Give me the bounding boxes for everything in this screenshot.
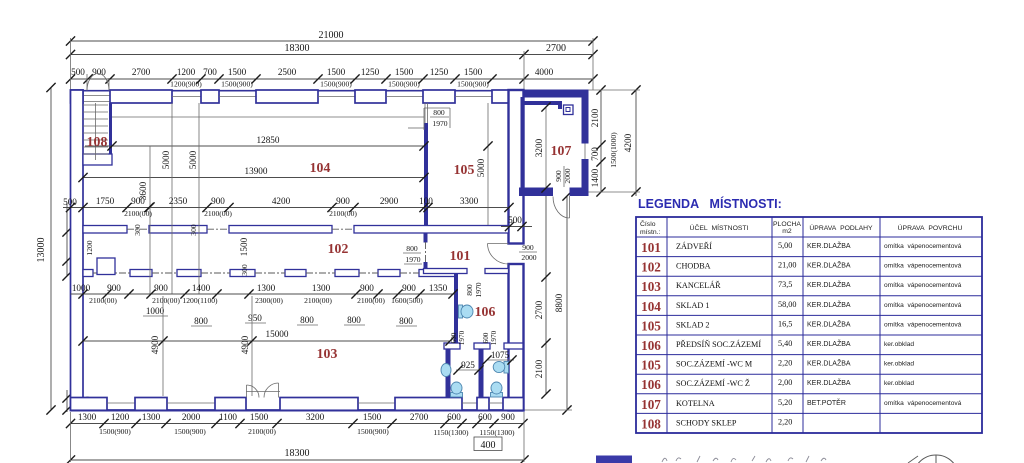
svg-text:2100(00): 2100(00)	[204, 209, 232, 218]
sub labels 1000 800 950 row	[143, 306, 417, 326]
svg-text:2350: 2350	[169, 196, 188, 206]
wall niche left corridor	[97, 258, 115, 275]
svg-text:500: 500	[63, 197, 77, 207]
exterior top wall outer line	[71, 90, 589, 92]
svg-text:1970: 1970	[458, 330, 466, 345]
bottom wall pier f	[477, 398, 489, 411]
room label 101	[450, 248, 471, 263]
svg-text:800: 800	[347, 315, 361, 325]
annex window east	[584, 144, 586, 160]
svg-text:2100(00): 2100(00)	[329, 209, 357, 218]
svg-text:2900: 2900	[380, 196, 399, 206]
svg-text:3300: 3300	[460, 196, 479, 206]
bottom window b	[167, 402, 215, 404]
svg-text:2100: 2100	[590, 108, 600, 127]
svg-text:ÚPRAVA POVRCHU: ÚPRAVA POVRCHU	[898, 223, 963, 232]
annex bottom wall right part	[570, 188, 589, 197]
room label 105	[454, 162, 475, 177]
door label 900/2000 at 107	[554, 166, 572, 187]
annex dim 4200	[589, 85, 641, 196]
svg-text:4000: 4000	[535, 67, 554, 77]
svg-text:103: 103	[641, 279, 661, 294]
svg-text:1500(900): 1500(900)	[357, 427, 389, 436]
svg-text:2700: 2700	[410, 412, 429, 422]
svg-text:15000: 15000	[266, 329, 289, 339]
dim chain bottom detail	[66, 412, 528, 437]
door arc entry 101	[488, 244, 509, 265]
svg-text:1970: 1970	[432, 119, 447, 128]
svg-text:KANCELÁŘ: KANCELÁŘ	[676, 280, 721, 290]
stair treads 108	[83, 103, 108, 160]
svg-text:omítka vápenocementová: omítka vápenocementová	[884, 263, 962, 270]
bottom window e	[489, 402, 503, 404]
stair right wall	[109, 103, 112, 155]
svg-text:PLOCHA: PLOCHA	[773, 221, 801, 228]
svg-text:omítka vápenocementová: omítka vápenocementová	[884, 282, 962, 289]
svg-text:1400: 1400	[590, 168, 600, 187]
svg-text:SOC.ZÁZEMÍ -WC Ž: SOC.ZÁZEMÍ -WC Ž	[676, 378, 750, 388]
svg-text:108: 108	[641, 416, 661, 431]
svg-text:800: 800	[399, 316, 413, 326]
svg-text:100: 100	[419, 196, 433, 206]
svg-text:105: 105	[454, 162, 475, 177]
svg-text:SKLAD 1: SKLAD 1	[676, 301, 709, 310]
dim left chain 1200/600/500	[62, 203, 94, 415]
wall 300 labels	[133, 224, 249, 276]
svg-text:CHODBA: CHODBA	[676, 262, 711, 271]
svg-text:600: 600	[450, 332, 458, 343]
svg-text:1500(1000): 1500(1000)	[609, 132, 618, 168]
dim row y203 along corridor top	[63, 196, 514, 218]
dim line 18300 bottom	[66, 412, 529, 463]
dim chain top detail	[66, 38, 598, 90]
svg-text:800: 800	[465, 284, 474, 296]
room 106 left wall	[454, 274, 458, 344]
top wall corner pier left	[71, 90, 84, 103]
svg-text:Číslo: Číslo	[640, 219, 656, 228]
divider wall 104/105	[424, 123, 428, 226]
svg-text:1970: 1970	[474, 282, 483, 297]
right exterior wall lower	[509, 264, 524, 411]
svg-text:800: 800	[433, 108, 445, 117]
door label 900/2000 entry 101	[519, 243, 537, 262]
bottom wall pier g	[503, 398, 524, 411]
annex right dim chain 2100/700/1400	[590, 85, 618, 196]
wc door labels 600/1970	[450, 330, 498, 345]
svg-text:58,00: 58,00	[778, 300, 796, 309]
svg-text:2700: 2700	[132, 67, 151, 77]
extension line 5000 a	[161, 103, 172, 294]
svg-text:1750: 1750	[96, 196, 115, 206]
svg-text:ZÁDVEŘÍ: ZÁDVEŘÍ	[676, 241, 712, 251]
toilet wc left	[451, 382, 463, 397]
corridor 102 top wall door openings dash	[127, 228, 354, 230]
svg-text:SCHODY SKLEP: SCHODY SKLEP	[676, 418, 737, 427]
svg-text:5000: 5000	[161, 150, 171, 169]
dim 8800 right	[554, 191, 572, 414]
basin room 106	[459, 305, 474, 318]
bottom wall pier c	[215, 398, 246, 411]
svg-text:73,5: 73,5	[778, 280, 792, 289]
svg-text:KOTELNA: KOTELNA	[676, 399, 715, 408]
svg-text:2,20: 2,20	[778, 417, 792, 426]
svg-text:900: 900	[131, 196, 145, 206]
annex top wall solid	[508, 90, 589, 98]
svg-text:900: 900	[336, 196, 350, 206]
top wall pier 2500	[256, 90, 318, 103]
svg-text:LEGENDA MÍSTNOSTI:: LEGENDA MÍSTNOSTI:	[638, 196, 782, 211]
dim line 21000	[66, 30, 598, 46]
svg-text:BET.POTĚR: BET.POTĚR	[807, 398, 846, 407]
top wall pier 1250 b	[423, 90, 455, 103]
svg-text:KER.DLAŽBA: KER.DLAŽBA	[807, 319, 851, 328]
svg-text:3200: 3200	[306, 412, 325, 422]
dim 400 box	[474, 437, 502, 451]
svg-text:500: 500	[508, 215, 522, 225]
svg-text:106: 106	[641, 338, 661, 353]
svg-text:3200: 3200	[534, 138, 544, 157]
svg-text:1200: 1200	[177, 67, 196, 77]
svg-text:18300: 18300	[285, 43, 310, 54]
legend table frame	[636, 217, 982, 433]
svg-text:1500: 1500	[250, 412, 269, 422]
corridor 102 bottom wall piers	[83, 270, 457, 277]
svg-text:1300: 1300	[312, 283, 331, 293]
legend purpose column	[676, 241, 761, 427]
svg-text:106: 106	[641, 377, 661, 392]
left exterior wall	[71, 90, 84, 411]
door arc stair entrance top	[87, 74, 109, 91]
svg-text:1350: 1350	[429, 283, 448, 293]
room 101 bottom wall right part	[485, 269, 509, 274]
svg-text:SOC.ZÁZEMÍ -WC M: SOC.ZÁZEMÍ -WC M	[676, 359, 753, 369]
svg-text:1000: 1000	[72, 283, 91, 293]
svg-text:105: 105	[641, 318, 661, 333]
svg-text:KER.DLAŽBA: KER.DLAŽBA	[807, 378, 851, 387]
legend surface column	[884, 243, 962, 407]
door dash 101 left	[425, 242, 427, 262]
svg-text:KER.DLAŽBA: KER.DLAŽBA	[807, 280, 851, 289]
top wall pier 2700	[110, 90, 172, 103]
boiler room 107 inner wall horizontal	[521, 101, 563, 109]
room label 103	[317, 346, 338, 361]
svg-text:5,00: 5,00	[778, 241, 792, 250]
wc divider wall	[479, 349, 484, 398]
svg-text:1300: 1300	[257, 283, 276, 293]
extension line 3600	[138, 146, 155, 294]
legend area column	[778, 241, 796, 426]
svg-text:1000: 1000	[146, 306, 165, 316]
legend title	[638, 196, 782, 211]
svg-text:1300: 1300	[142, 412, 161, 422]
bottom window a	[107, 402, 135, 404]
door gap lines divider 104/105	[425, 103, 428, 123]
svg-text:KER.DLAŽBA: KER.DLAŽBA	[807, 300, 851, 309]
svg-text:1150(1300): 1150(1300)	[433, 428, 469, 437]
svg-text:1600(500): 1600(500)	[391, 296, 423, 305]
dim left 13000	[36, 83, 56, 415]
legend swatch blue bottom	[596, 456, 632, 463]
svg-text:KER.DLAŽBA: KER.DLAŽBA	[807, 359, 851, 368]
svg-text:1200: 1200	[85, 240, 94, 255]
svg-text:300: 300	[133, 224, 142, 236]
svg-text:106: 106	[475, 304, 496, 319]
dim 12850 room 104	[85, 135, 429, 151]
svg-text:1500: 1500	[464, 67, 483, 77]
svg-text:1970: 1970	[405, 255, 420, 264]
svg-text:104: 104	[641, 299, 661, 314]
svg-text:300: 300	[240, 264, 249, 276]
svg-text:1500: 1500	[363, 412, 382, 422]
svg-text:PŘEDSÍŇ SOC.ZÁZEMÍ: PŘEDSÍŇ SOC.ZÁZEMÍ	[676, 339, 761, 349]
dim 3200 room 107	[534, 102, 551, 192]
extension 4900 b	[240, 296, 257, 396]
svg-text:2000: 2000	[182, 412, 201, 422]
svg-text:900: 900	[501, 412, 515, 422]
svg-text:ÚČEL MÍSTNOSTI: ÚČEL MÍSTNOSTI	[690, 223, 749, 232]
room label 106	[475, 304, 496, 319]
svg-text:2100(00): 2100(00)	[304, 296, 332, 305]
svg-text:700: 700	[203, 67, 217, 77]
svg-text:místn.:: místn.:	[640, 229, 661, 236]
svg-text:1500: 1500	[395, 67, 414, 77]
dim 13900 room 104	[78, 166, 428, 182]
svg-text:900: 900	[154, 283, 168, 293]
svg-text:8800: 8800	[554, 293, 564, 312]
room 101 bottom wall left part	[424, 269, 468, 274]
svg-text:1500(900): 1500(900)	[388, 80, 420, 89]
svg-text:18300: 18300	[285, 448, 310, 459]
svg-text:2,20: 2,20	[778, 359, 792, 368]
dim 925 wc	[453, 360, 483, 375]
svg-text:16,5: 16,5	[778, 319, 792, 328]
svg-text:ÚPRAVA PODLAHY: ÚPRAVA PODLAHY	[809, 223, 873, 232]
svg-text:102: 102	[328, 241, 349, 256]
dim line 18300 / 2700	[66, 43, 598, 59]
svg-text:1500(900): 1500(900)	[174, 427, 206, 436]
top wall pier 1250 a	[355, 90, 386, 103]
svg-text:omítka vápenocementová: omítka vápenocementová	[884, 321, 962, 328]
svg-text:800: 800	[194, 316, 208, 326]
stair bottom landing wall	[83, 154, 112, 165]
annex right wall lower	[582, 159, 589, 196]
annex bottom wall left part	[519, 188, 553, 197]
svg-text:103: 103	[317, 346, 338, 361]
svg-text:1400: 1400	[192, 283, 211, 293]
svg-text:900: 900	[402, 283, 416, 293]
svg-text:SKLAD 2: SKLAD 2	[676, 320, 709, 329]
svg-text:1500: 1500	[228, 67, 247, 77]
svg-text:4900: 4900	[150, 335, 160, 354]
svg-text:108: 108	[87, 134, 108, 149]
room label 107	[551, 143, 572, 158]
svg-text:5000: 5000	[476, 158, 486, 177]
toilet wc right upper	[493, 361, 508, 373]
svg-text:ker.obklad: ker.obklad	[884, 361, 914, 368]
svg-text:5,40: 5,40	[778, 339, 792, 348]
svg-text:KER.DLAŽBA: KER.DLAŽBA	[807, 261, 851, 270]
bottom exterior wall outer line	[71, 409, 524, 411]
room label 104	[310, 160, 331, 175]
svg-text:omítka vápenocementová: omítka vápenocementová	[884, 302, 962, 309]
svg-text:1500(900): 1500(900)	[320, 80, 352, 89]
svg-text:1500(900): 1500(900)	[221, 80, 253, 89]
dim chain 2700/2100 right	[521, 188, 572, 410]
svg-text:1300: 1300	[78, 412, 97, 422]
svg-text:1500: 1500	[239, 237, 249, 256]
dim 1075 wc	[482, 350, 516, 365]
svg-text:925: 925	[461, 360, 475, 370]
window 1200 top	[172, 96, 201, 98]
double door 103 main	[246, 383, 280, 398]
svg-text:KER.DLAŽBA: KER.DLAŽBA	[807, 339, 851, 348]
svg-text:400: 400	[481, 440, 496, 451]
svg-text:2000: 2000	[521, 253, 536, 262]
dim 5000 room 105	[476, 103, 493, 225]
svg-text:21000: 21000	[319, 30, 344, 41]
svg-text:1250: 1250	[430, 67, 449, 77]
svg-text:800: 800	[406, 244, 418, 253]
svg-text:KER.DLAŽBA: KER.DLAŽBA	[807, 241, 851, 250]
svg-text:102: 102	[641, 260, 661, 275]
svg-text:900: 900	[522, 243, 534, 252]
svg-text:600: 600	[482, 332, 490, 343]
svg-text:1500(900): 1500(900)	[99, 427, 131, 436]
svg-text:900: 900	[107, 283, 121, 293]
top wall pier 700	[201, 90, 219, 103]
svg-text:2,00: 2,00	[778, 378, 792, 387]
room 101 left wall top stub	[424, 233, 428, 243]
svg-text:700: 700	[590, 147, 600, 161]
svg-text:600: 600	[478, 412, 492, 422]
dim row y294 under corridor	[71, 283, 458, 305]
svg-text:5000: 5000	[188, 150, 198, 169]
room label 108	[87, 134, 108, 149]
svg-text:101: 101	[641, 240, 661, 255]
svg-text:2100(00): 2100(00)	[124, 209, 152, 218]
svg-text:omítka vápenocementová: omítka vápenocementová	[884, 243, 962, 250]
svg-text:12850: 12850	[257, 135, 280, 145]
svg-text:2100(00): 2100(00)	[152, 296, 180, 305]
svg-text:m2: m2	[782, 228, 792, 235]
svg-text:4200: 4200	[623, 133, 633, 152]
svg-text:1150(1300): 1150(1300)	[479, 428, 515, 437]
dim 500 annex foot	[501, 215, 532, 231]
svg-text:omítka vápenocementová: omítka vápenocementová	[884, 400, 962, 407]
svg-text:900: 900	[554, 170, 563, 182]
extension 4900 a	[150, 296, 168, 396]
door label 800/1970 room 101 left	[403, 244, 422, 264]
svg-text:900: 900	[211, 196, 225, 206]
boiler room 107 inner wall vertical	[521, 97, 525, 188]
washbasin wc left wall	[441, 364, 451, 377]
bottom window c	[358, 402, 395, 404]
toilet wc right lower	[491, 382, 503, 397]
svg-text:950: 950	[248, 313, 262, 323]
svg-text:1500(900): 1500(900)	[457, 80, 489, 89]
right exterior wall upper	[509, 90, 524, 244]
window 1500 top a	[219, 96, 256, 98]
window 1500 top b	[318, 96, 355, 98]
horizontal guide line room 104	[112, 116, 424, 118]
svg-text:300: 300	[189, 224, 198, 236]
svg-text:107: 107	[641, 397, 661, 412]
top wall door threshold (stair entrance)	[84, 96, 110, 102]
svg-text:104: 104	[310, 160, 331, 175]
window 1500 top d	[455, 96, 492, 98]
door arc boiler 107	[553, 196, 570, 218]
corridor width 1500 label	[239, 237, 249, 256]
wc top wall segments	[444, 343, 523, 349]
corridor 102 top wall piers	[83, 226, 509, 234]
corridor 102 bottom wall openings dash	[93, 272, 419, 274]
svg-text:2700: 2700	[546, 43, 566, 54]
bottom wall pier d	[280, 398, 358, 411]
svg-text:2100(00): 2100(00)	[357, 296, 385, 305]
svg-text:1200(900): 1200(900)	[170, 80, 202, 89]
door label 800/1970 101 to 106	[465, 282, 483, 297]
svg-text:21,00: 21,00	[778, 261, 796, 270]
bottom wall pier a	[71, 398, 108, 411]
svg-text:2100(00): 2100(00)	[248, 427, 276, 436]
svg-text:600: 600	[447, 412, 461, 422]
wc left wall	[446, 349, 451, 398]
legend header	[640, 219, 962, 236]
svg-text:1075: 1075	[491, 350, 510, 360]
svg-text:1100: 1100	[219, 412, 237, 422]
dim 15000 room 103	[78, 329, 454, 346]
legend floor column	[807, 241, 851, 407]
svg-text:1970: 1970	[490, 330, 498, 345]
svg-text:ker.obklad: ker.obklad	[884, 341, 914, 348]
svg-text:1500: 1500	[327, 67, 346, 77]
handwriting fragments bottom	[662, 456, 826, 462]
room 101 left wall bottom stub	[424, 262, 428, 269]
door label 800/1970 divider top	[408, 108, 450, 130]
svg-text:5,20: 5,20	[778, 398, 792, 407]
svg-text:13900: 13900	[245, 166, 268, 176]
annex right wall upper	[582, 90, 589, 144]
svg-text:4900: 4900	[240, 335, 250, 354]
bottom window d	[462, 402, 477, 404]
svg-text:2500: 2500	[278, 67, 297, 77]
svg-text:2300(00): 2300(00)	[255, 296, 283, 305]
svg-text:2100(00): 2100(00)	[89, 296, 117, 305]
svg-text:500: 500	[71, 67, 85, 77]
svg-text:1200: 1200	[111, 412, 130, 422]
bottom wall pier e	[395, 398, 462, 411]
bottom wall pier b	[135, 398, 167, 411]
svg-text:2100: 2100	[534, 359, 544, 378]
svg-text:ker.obklad: ker.obklad	[884, 380, 914, 387]
svg-text:1250: 1250	[361, 67, 380, 77]
svg-text:4200: 4200	[272, 196, 291, 206]
svg-text:900: 900	[360, 283, 374, 293]
svg-text:800: 800	[300, 315, 314, 325]
window 1500 top c	[386, 96, 423, 98]
top wall pier right	[492, 90, 509, 103]
room label 102	[328, 241, 349, 256]
svg-text:900: 900	[92, 67, 106, 77]
chimney block 107	[564, 105, 574, 115]
north circle bottom right	[908, 455, 959, 463]
svg-text:1200(1100): 1200(1100)	[182, 296, 218, 305]
svg-text:2700: 2700	[534, 300, 544, 319]
svg-text:107: 107	[551, 143, 572, 158]
legend numbers column	[641, 240, 661, 431]
svg-text:105: 105	[641, 358, 661, 373]
svg-text:101: 101	[450, 248, 471, 263]
